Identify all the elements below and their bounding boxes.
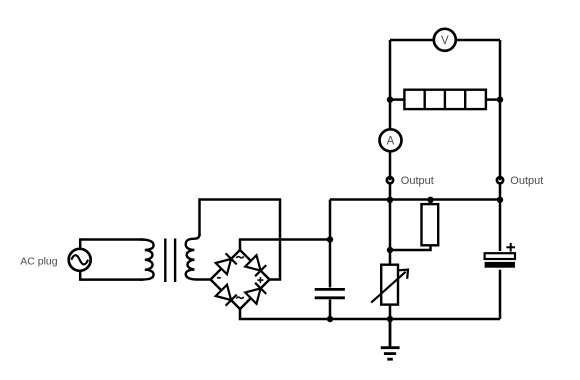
bridge bottom stub and negative bus: [240, 309, 500, 319]
svg-text:V: V: [441, 35, 449, 47]
resistor block R (4 segments): [390, 90, 500, 109]
wire AC loop top: [80, 238, 143, 241]
diode D2 (T-R): [245, 255, 266, 276]
wire AC loop bottom: [80, 278, 143, 281]
capacitor C1: [313, 288, 347, 300]
diode D1 (L-T): [216, 253, 237, 274]
resistor R1: [390, 200, 438, 251]
svg-text:AC plug: AC plug: [20, 256, 58, 268]
bridge top stub and wire to C1 node: [240, 240, 330, 251]
transformer T1 core: [164, 239, 166, 283]
wire C1 branch vertical: [329, 200, 332, 320]
voltmeter V: [434, 29, 456, 51]
bridge polarity labels: [217, 256, 264, 298]
output terminal right: [497, 176, 503, 183]
left rail: [389, 40, 392, 319]
transformer T1 primary winding: [140, 240, 154, 280]
wire AC loop left: [79, 238, 82, 280]
top bus: [330, 198, 500, 201]
diode D3 (L-B): [216, 285, 237, 306]
ground: [381, 319, 400, 359]
capacitor C2 polarized: [482, 243, 518, 270]
AC source: [69, 249, 91, 271]
svg-text:A: A: [387, 136, 395, 148]
transformer T1 secondary winding: [186, 234, 211, 280]
svg-text:Output: Output: [401, 175, 434, 187]
ammeter A: [380, 129, 402, 151]
top wire: [390, 39, 500, 42]
junction dots: [327, 96, 503, 322]
output terminal left: [387, 176, 393, 183]
svg-text:Output: Output: [510, 175, 543, 187]
diode D4 (B-R): [245, 283, 266, 304]
wire secondary top loop to bridge + vertex: [200, 200, 281, 280]
rheostat R2: [371, 265, 408, 305]
right rail: [499, 40, 502, 319]
bridge rectifier diamond sides: [211, 250, 270, 309]
